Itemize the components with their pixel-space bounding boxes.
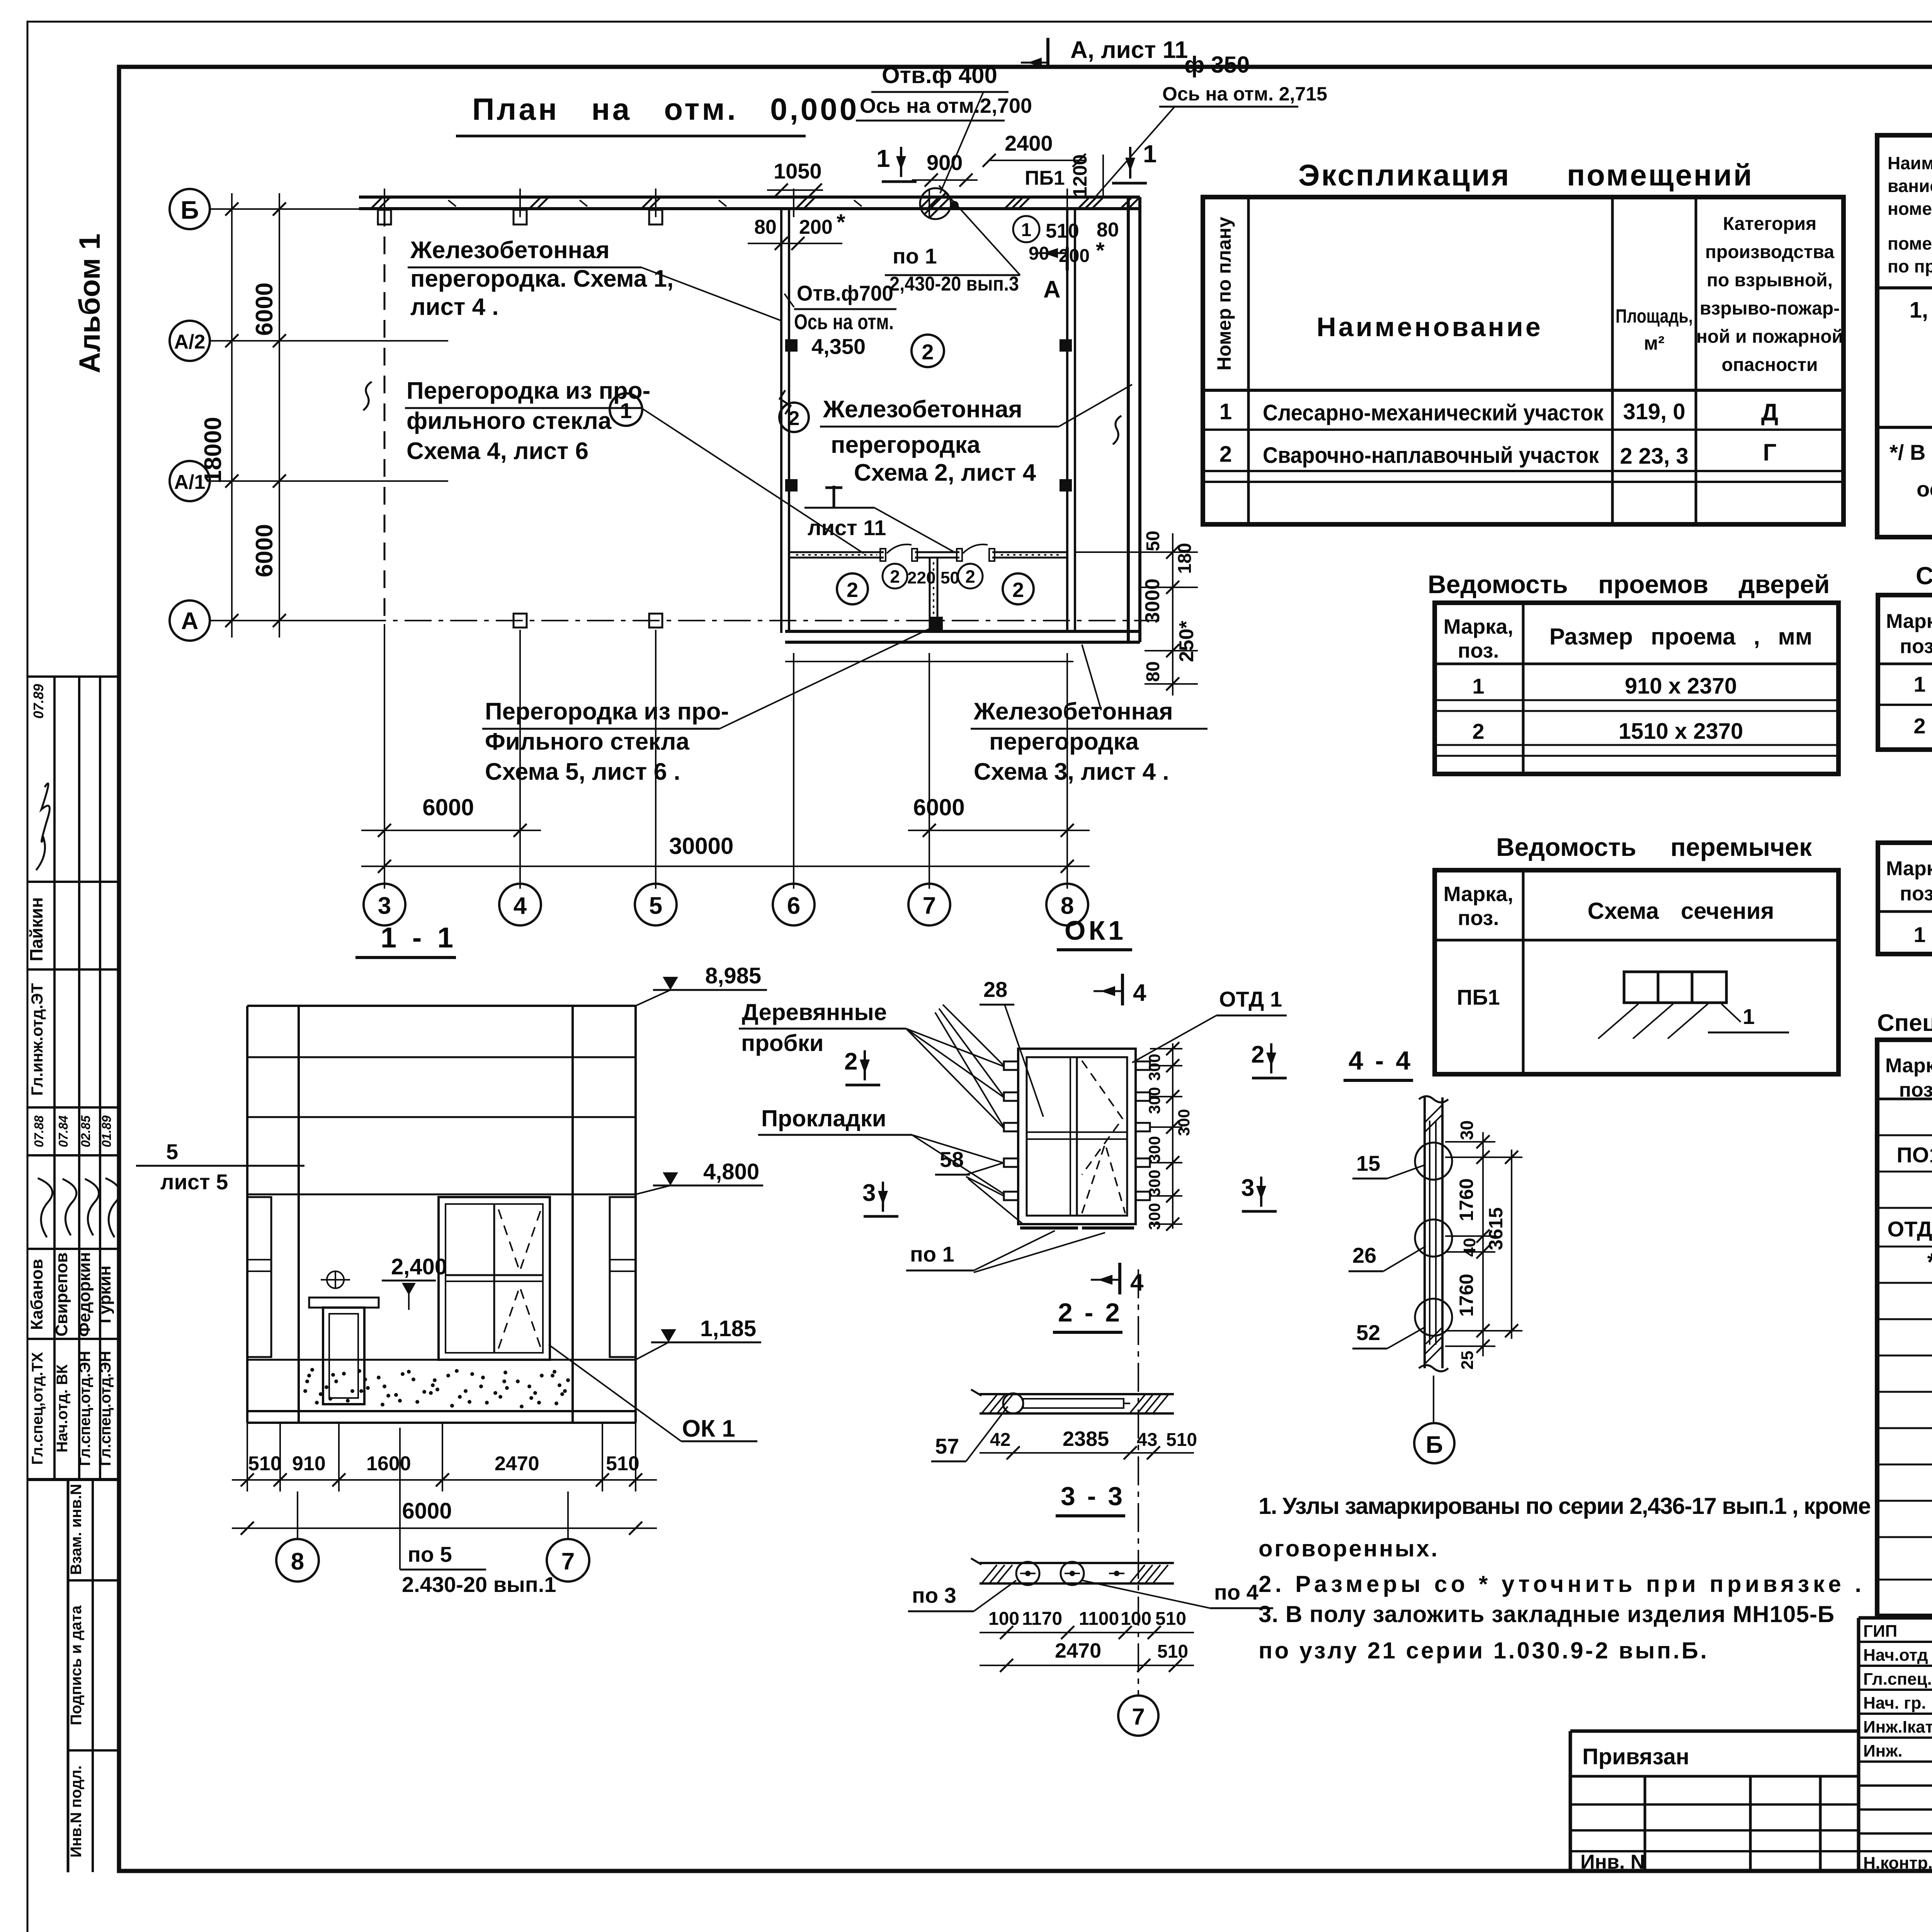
- svg-text:Пайкин: Пайкин: [26, 897, 46, 961]
- svg-text:Н.контр.: Н.контр.: [1863, 1854, 1932, 1872]
- svg-text:510: 510: [1046, 220, 1079, 242]
- svg-text:лист 11: лист 11: [808, 515, 886, 540]
- svg-text:лист 5: лист 5: [160, 1170, 228, 1194]
- svg-text:Спецификация элементов заполне: Спецификация элементов заполнения проемо…: [1916, 562, 1932, 590]
- svg-text:07.89: 07.89: [31, 684, 46, 719]
- svg-text:Фильного стекла: Фильного стекла: [485, 728, 689, 755]
- svg-text:по 3: по 3: [912, 1583, 956, 1607]
- svg-text:100: 100: [1121, 1609, 1151, 1629]
- svg-text:оговоренных.: оговоренных.: [1259, 1536, 1437, 1561]
- svg-text:поз.: поз.: [1458, 639, 1499, 662]
- axis B circle below 4-4: [1433, 1376, 1434, 1422]
- svg-text:4: 4: [1133, 980, 1146, 1006]
- svg-text:ной и пожарной: ной и пожарной: [1696, 327, 1843, 347]
- svg-text:180: 180: [1175, 543, 1195, 574]
- svg-text:1 - 1: 1 - 1: [381, 922, 457, 954]
- svg-text:Ось на отм. 2,715: Ось на отм. 2,715: [1162, 83, 1327, 105]
- section mark 4 bottom: [1118, 1263, 1121, 1294]
- svg-text:по 1: по 1: [910, 1242, 954, 1266]
- svg-text:ОТД 1: ОТД 1: [1888, 1217, 1932, 1241]
- svg-text:пробки: пробки: [741, 1030, 824, 1056]
- svg-text:*: *: [837, 210, 845, 235]
- svg-text:ОК 1: ОК 1: [682, 1415, 735, 1442]
- partition break mark: [780, 390, 791, 414]
- svg-text:А: А: [181, 608, 199, 634]
- table vedomost peremychek: [1435, 870, 1838, 1074]
- svg-text:57: 57: [935, 1434, 959, 1458]
- svg-text:Отв.ф 400: Отв.ф 400: [882, 62, 997, 88]
- svg-text:7: 7: [561, 1548, 575, 1575]
- svg-text:Марка,: Марка,: [1444, 615, 1514, 638]
- level circle symbol: [327, 1271, 344, 1288]
- section mark 4 top: [1121, 974, 1124, 1005]
- svg-text:3615: 3615: [1485, 1207, 1507, 1250]
- margin stamp table grid: [29, 675, 119, 678]
- svg-text:2: 2: [1913, 714, 1925, 738]
- T partition vertical: [929, 558, 931, 631]
- svg-text:43: 43: [1137, 1430, 1157, 1450]
- svg-text:1100: 1100: [1079, 1609, 1119, 1629]
- svg-text:50: 50: [940, 568, 959, 587]
- hatched wall ends 2-2: [982, 1395, 1168, 1413]
- bottom axis A dash-dot line: [359, 620, 1159, 621]
- svg-text:1,185: 1,185: [700, 1316, 756, 1341]
- svg-text:Железобетонная: Железобетонная: [410, 237, 610, 264]
- svg-text:510: 510: [248, 1452, 282, 1475]
- right side dims of plan: [1075, 551, 1198, 553]
- wooden plug hooks left: [1004, 1061, 1150, 1200]
- column stubs below top wall: [378, 210, 391, 224]
- svg-text:510: 510: [1157, 1641, 1188, 1662]
- svg-text:2: 2: [1012, 578, 1024, 602]
- wavy break mark on left: [363, 382, 372, 410]
- svg-text:8: 8: [291, 1548, 304, 1575]
- svg-text:6000: 6000: [913, 794, 964, 820]
- svg-text:Инв.N подл.: Инв.N подл.: [68, 1765, 85, 1858]
- svg-text:Схема 2, лист 4: Схема 2, лист 4: [854, 459, 1036, 486]
- svg-text:остальное — по указанному: остальное — по указанному узлу пола: [1917, 477, 1932, 501]
- svg-text:Ведомость проемов дверей: Ведомость проемов дверей: [1428, 570, 1830, 599]
- svg-text:Альбом 1: Альбом 1: [73, 233, 106, 373]
- svg-text:6000: 6000: [402, 1498, 452, 1524]
- svg-text:2. Размеры со * уточнить: 2. Размеры со * уточнить при привязке .: [1259, 1571, 1861, 1597]
- svg-text:6000: 6000: [422, 794, 474, 820]
- svg-text:1, 2: 1, 2: [1910, 298, 1932, 323]
- svg-text:по узлу 21 серии 1.030.9-2: по узлу 21 серии 1.030.9-2 вып.Б.: [1259, 1638, 1707, 1663]
- svg-text:Слесарно-механический участок: Слесарно-механический участок: [1263, 400, 1604, 425]
- svg-text:2: 2: [1472, 719, 1484, 743]
- svg-text:300: 300: [1145, 1087, 1163, 1114]
- svg-text:*/ В графе указаны покрытие: */ В графе указаны покрытие пола и недос…: [1889, 440, 1932, 464]
- 3-3 center dash line: [1138, 1269, 1139, 1694]
- svg-text:15: 15: [1356, 1151, 1380, 1175]
- 2-2 dims: [980, 1452, 1194, 1454]
- svg-text:Инв. N: Инв. N: [1580, 1851, 1645, 1873]
- svg-text:8,985: 8,985: [705, 963, 761, 988]
- svg-text:по 4: по 4: [1214, 1580, 1259, 1604]
- svg-text:5: 5: [166, 1139, 178, 1164]
- svg-text:1: 1: [1219, 399, 1232, 424]
- svg-text:помещения: помещения: [1888, 233, 1932, 253]
- svg-text:План на отм. 0,000: План на отм. 0,000: [472, 92, 859, 126]
- table spec peremychek: [1878, 843, 1932, 954]
- svg-text:300: 300: [1145, 1054, 1163, 1081]
- door swing arcs: [887, 544, 912, 553]
- svg-text:52: 52: [1356, 1320, 1380, 1345]
- svg-text:по проекту: по проекту: [1888, 256, 1932, 276]
- svg-text:2: 2: [965, 566, 975, 587]
- svg-text:опасности: опасности: [1721, 355, 1818, 375]
- svg-text:1: 1: [1913, 672, 1925, 696]
- svg-text:Деревянные: Деревянные: [742, 999, 887, 1025]
- svg-text:26: 26: [1352, 1243, 1376, 1267]
- room circle 2 main: [912, 335, 944, 367]
- svg-text:3: 3: [1241, 1175, 1254, 1201]
- bottom sill lines: [1020, 1226, 1078, 1230]
- hatch patch on wall near PB1: [529, 198, 1103, 209]
- svg-text:2470: 2470: [495, 1452, 539, 1475]
- svg-text:50: 50: [1143, 531, 1163, 551]
- pier table pedestal: [309, 1298, 379, 1308]
- svg-text:1050: 1050: [774, 159, 822, 183]
- svg-text:Гл.спец.: Гл.спец.: [1863, 1670, 1932, 1689]
- svg-text:2: 2: [1251, 1041, 1264, 1068]
- svg-text:100: 100: [988, 1609, 1019, 1629]
- svg-text:2: 2: [922, 340, 934, 364]
- table spec dverey: [1878, 595, 1932, 750]
- svg-text:1760: 1760: [1456, 1178, 1477, 1221]
- svg-text:80: 80: [1143, 661, 1163, 682]
- table vedomost proemov: [1435, 603, 1838, 774]
- 3-3 dims row2: [980, 1665, 1194, 1666]
- small axis stubs on bottom line: [514, 614, 527, 628]
- svg-text:Ось на отм.: Ось на отм.: [794, 310, 894, 334]
- svg-text:Б: Б: [1426, 1432, 1443, 1458]
- svg-text:поз.: поз.: [1458, 906, 1499, 930]
- svg-text:250*: 250*: [1175, 621, 1198, 662]
- hatched hole circle in wall: [920, 188, 951, 219]
- svg-text:1760: 1760: [1456, 1274, 1477, 1316]
- svg-text:40: 40: [1460, 1238, 1479, 1257]
- svg-text:Экспликация помещений: Экспликация помещений: [1298, 158, 1753, 192]
- svg-text:лист 4 .: лист 4 .: [410, 294, 499, 320]
- right outer wall: [1127, 197, 1130, 642]
- opening dashes: [498, 1287, 541, 1349]
- privyazan grid: [1644, 1776, 1646, 1871]
- list 11 flag: [804, 507, 874, 509]
- svg-text:3: 3: [862, 1180, 876, 1206]
- svg-text:перегородка: перегородка: [831, 432, 980, 458]
- hatch at bottom: [1425, 1105, 1442, 1364]
- right dimension lines 4-4: [1445, 1142, 1522, 1346]
- svg-text:Спецификация к схеме заполнени: Спецификация к схеме заполнения оконного…: [1877, 1010, 1932, 1036]
- svg-text:Д: Д: [1761, 399, 1778, 426]
- svg-text:перегородка. Схема 1,: перегородка. Схема 1,: [410, 265, 673, 292]
- svg-text:1200: 1200: [1069, 154, 1091, 197]
- signature table: [1857, 1618, 1861, 1871]
- svg-text:2,430-20 вып.3: 2,430-20 вып.3: [889, 273, 1019, 295]
- svg-text:производства: производства: [1705, 242, 1834, 262]
- svg-text:Площадь,: Площадь,: [1616, 305, 1693, 327]
- svg-text:2470: 2470: [1055, 1639, 1101, 1662]
- svg-text:Размер проема , мм: Размер проема , мм: [1549, 624, 1813, 650]
- svg-text:1170: 1170: [1022, 1609, 1062, 1629]
- svg-text:Гл.спец.отд.ЭН: Гл.спец.отд.ЭН: [77, 1351, 94, 1466]
- svg-text:по 5: по 5: [408, 1542, 452, 1566]
- privyazan box: [1569, 1731, 1572, 1871]
- svg-text:30000: 30000: [669, 833, 734, 859]
- svg-text:м²: м²: [1644, 332, 1665, 354]
- svg-text:319, 0: 319, 0: [1623, 399, 1685, 424]
- svg-text:по 1: по 1: [893, 244, 937, 268]
- margin lower boxes: [67, 1480, 70, 1871]
- black column squares on partitions: [785, 339, 798, 352]
- svg-text:1: 1: [1913, 922, 1925, 947]
- lower room circles: [837, 573, 868, 604]
- svg-text:2 - 2: 2 - 2: [1058, 1298, 1122, 1327]
- svg-text:перегородка: перегородка: [989, 728, 1139, 755]
- svg-text:220: 220: [907, 568, 935, 587]
- svg-text:2385: 2385: [1063, 1427, 1109, 1451]
- svg-text:Наимено-: Наимено-: [1888, 153, 1932, 173]
- svg-text:510: 510: [606, 1452, 639, 1475]
- svg-text:2400: 2400: [1005, 131, 1053, 155]
- vertical dimension lines left: [231, 193, 233, 638]
- center window OK1: [439, 1197, 550, 1360]
- svg-text:Взам. инв.N: Взам. инв.N: [68, 1484, 85, 1575]
- left partial window: [247, 1197, 271, 1357]
- svg-text:01.89: 01.89: [99, 1115, 114, 1147]
- svg-text:Гуркин: Гуркин: [95, 1265, 114, 1323]
- svg-text:1. Узлы замаркированы по сер: 1. Узлы замаркированы по серии 2,436-17 …: [1259, 1493, 1871, 1519]
- svg-text:ПО1: ПО1: [1897, 1143, 1932, 1167]
- svg-text:Ведомость перемычек: Ведомость перемычек: [1496, 833, 1812, 861]
- svg-text:Марка,: Марка,: [1885, 1054, 1932, 1077]
- svg-text:Гл.инж.отд.ЭТ: Гл.инж.отд.ЭТ: [28, 983, 46, 1096]
- svg-text:2: 2: [789, 407, 800, 430]
- door posts: [880, 549, 886, 561]
- svg-text:2: 2: [844, 1048, 857, 1075]
- svg-text:Федоркин: Федоркин: [75, 1252, 94, 1337]
- svg-text:А: А: [1043, 276, 1061, 303]
- svg-text:А/2: А/2: [174, 331, 206, 353]
- svg-text:ОТД 1: ОТД 1: [1219, 987, 1282, 1011]
- wall axis ticks on top wall: [384, 189, 1067, 217]
- 2-2 bar: [980, 1393, 1174, 1395]
- svg-text:Железобетонная: Железобетонная: [823, 396, 1022, 423]
- svg-text:Марка,: Марка,: [1886, 610, 1932, 633]
- svg-text:510: 510: [1155, 1609, 1186, 1629]
- svg-text:*: *: [1927, 1248, 1932, 1276]
- svg-text:Наименование: Наименование: [1316, 312, 1543, 342]
- svg-text:300: 300: [1145, 1136, 1163, 1163]
- svg-text:200: 200: [799, 216, 833, 238]
- axis circle 7 below 3-3: [1118, 1696, 1158, 1736]
- dim line 6000 right bottom: [908, 830, 1090, 831]
- svg-text:510: 510: [1166, 1430, 1197, 1450]
- svg-text:3. В полу заложить закладные: 3. В полу заложить закладные изделия МН1…: [1259, 1601, 1834, 1627]
- svg-text:поз.: поз.: [1900, 883, 1932, 905]
- svg-text:5: 5: [649, 893, 662, 919]
- circle 2 at partition break: [779, 403, 809, 432]
- dashed opening symbols: [1082, 1061, 1122, 1175]
- svg-text:1600: 1600: [366, 1452, 411, 1475]
- svg-text:2: 2: [890, 566, 900, 587]
- svg-text:6000: 6000: [251, 524, 278, 577]
- svg-text:910 х 2370: 910 х 2370: [1625, 673, 1737, 699]
- svg-text:Перегородка из про-: Перегородка из про-: [406, 378, 650, 404]
- left dashed wall line: [384, 209, 386, 621]
- svg-text:4: 4: [514, 893, 527, 919]
- svg-text:Прокладки: Прокладки: [761, 1105, 886, 1131]
- svg-text:поз.: поз.: [1899, 1079, 1932, 1101]
- 3-3 dims row1: [980, 1632, 1194, 1633]
- svg-text:1: 1: [1143, 140, 1157, 168]
- svg-text:Гл.спец.отд.ЭН: Гл.спец.отд.ЭН: [97, 1351, 114, 1466]
- svg-text:80: 80: [754, 216, 777, 238]
- axis circle A/2: [170, 321, 210, 361]
- horizontal joints: [247, 1056, 636, 1058]
- svg-text:Схема 3, лист 4 .: Схема 3, лист 4 .: [974, 759, 1169, 785]
- svg-text:Схема 4, лист 6: Схема 4, лист 6: [406, 438, 588, 464]
- svg-text:Марка,: Марка,: [1886, 857, 1932, 880]
- svg-text:Гл.спец,отд.ТХ: Гл.спец,отд.ТХ: [29, 1352, 46, 1465]
- svg-text:1: 1: [1472, 674, 1484, 698]
- svg-text:ПБ1: ПБ1: [1025, 167, 1065, 189]
- rotated signatures: [39, 1179, 53, 1236]
- elevation bottom dims: [247, 1423, 248, 1492]
- table ekspl polov: [1877, 135, 1932, 537]
- svg-text:42: 42: [990, 1430, 1010, 1450]
- window frame outer: [1018, 1049, 1136, 1224]
- svg-text:900: 900: [927, 150, 963, 175]
- dim line 30000: [361, 866, 1090, 867]
- partition wall axis 8: [1066, 209, 1068, 633]
- svg-text:Марка,: Марка,: [1444, 883, 1514, 906]
- 4-4 vertical member: [1423, 1097, 1426, 1368]
- svg-text:Нач.отд. ВК: Нач.отд. ВК: [54, 1364, 71, 1452]
- svg-text:Кабанов: Кабанов: [27, 1259, 46, 1330]
- svg-text:4,350: 4,350: [811, 334, 866, 359]
- svg-text:1: 1: [1021, 220, 1032, 240]
- svg-text:Нач.отд: Нач.отд: [1863, 1646, 1928, 1665]
- svg-text:ПБ1: ПБ1: [1457, 985, 1500, 1009]
- top wall: [359, 196, 1140, 199]
- axis circle A/1: [170, 461, 210, 501]
- dim line 6000 left bottom: [361, 830, 541, 831]
- bottom dimension area: [384, 624, 385, 889]
- svg-text:Перегородка из про-: Перегородка из про-: [485, 698, 729, 725]
- svg-text:Б: Б: [180, 196, 199, 224]
- svg-text:Привязан: Привязан: [1582, 1744, 1689, 1769]
- svg-text:2: 2: [1219, 442, 1232, 467]
- extension lines to right dim: [1150, 1049, 1182, 1224]
- svg-text:1: 1: [876, 145, 890, 172]
- svg-text:2 23, 3: 2 23, 3: [1620, 444, 1688, 469]
- axis circles 8 and 7: [297, 1492, 298, 1540]
- svg-text:30: 30: [1457, 1120, 1477, 1140]
- svg-text:Сварочно-наплавочный участок: Сварочно-наплавочный участок: [1263, 443, 1599, 468]
- lintel section schema: [1624, 972, 1658, 1003]
- svg-text:3: 3: [378, 893, 391, 919]
- table ekspl pomeshcheniy: [1203, 197, 1844, 524]
- svg-text:ОК1: ОК1: [1065, 915, 1126, 946]
- svg-text:02.85: 02.85: [78, 1115, 93, 1147]
- svg-text:3000: 3000: [1141, 578, 1164, 623]
- svg-text:Свирепов: Свирепов: [52, 1252, 71, 1337]
- 3-3 bar: [980, 1562, 1174, 1564]
- wall panel joint marks: [448, 200, 862, 206]
- bottom wall of rooms: [785, 630, 1140, 633]
- svg-text:А, лист 11: А, лист 11: [1070, 37, 1188, 63]
- svg-text:ф 350: ф 350: [1184, 52, 1250, 78]
- svg-text:Категория: Категория: [1723, 214, 1816, 234]
- svg-text:Нач. гр.: Нач. гр.: [1863, 1694, 1926, 1713]
- svg-text:910: 910: [292, 1452, 326, 1475]
- svg-text:взрыво-пожар-: взрыво-пожар-: [1700, 298, 1840, 319]
- svg-text:Отв.ф700: Отв.ф700: [797, 281, 893, 305]
- svg-text:25: 25: [1458, 1351, 1477, 1370]
- svg-text:номер: номер: [1888, 199, 1932, 219]
- svg-text:07.84: 07.84: [56, 1116, 70, 1148]
- svg-text:300: 300: [1145, 1170, 1163, 1197]
- svg-text:4,800: 4,800: [703, 1159, 759, 1184]
- svg-text:2.430-20 вып.1: 2.430-20 вып.1: [402, 1572, 556, 1597]
- glass partition horizontal: [789, 551, 884, 553]
- bottom axis circles: [364, 884, 405, 925]
- svg-text:4: 4: [1130, 1269, 1144, 1296]
- detail circles: [1415, 1143, 1452, 1180]
- svg-text:*: *: [1096, 238, 1105, 263]
- fan of leaders from top left to plugs: [935, 1005, 1004, 1127]
- svg-text:Железобетонная: Железобетонная: [973, 698, 1173, 725]
- svg-text:Ось на отм.2,700: Ось на отм.2,700: [860, 94, 1032, 117]
- table spec window: [1877, 1040, 1932, 1616]
- svg-text:28: 28: [983, 977, 1007, 1002]
- svg-text:07.88: 07.88: [32, 1115, 46, 1147]
- svg-text:Инж.: Инж.: [1863, 1742, 1903, 1760]
- right partial window: [610, 1197, 636, 1357]
- svg-text:Подпись и дата: Подпись и дата: [68, 1605, 85, 1725]
- svg-text:вание или: вание или: [1888, 176, 1932, 196]
- svg-text:200: 200: [1059, 246, 1090, 266]
- dim 6000: [232, 1527, 657, 1529]
- bolts in 3-3: [1016, 1562, 1039, 1585]
- svg-text:18000: 18000: [200, 417, 226, 483]
- svg-text:Номер по плану: Номер по плану: [1213, 217, 1235, 371]
- svg-text:фильного стекла: фильного стекла: [406, 408, 612, 434]
- svg-text:ГИП: ГИП: [1863, 1622, 1897, 1641]
- svg-text:по взрывной,: по взрывной,: [1707, 270, 1833, 291]
- svg-text:300: 300: [1145, 1203, 1163, 1230]
- svg-text:2: 2: [847, 578, 858, 602]
- svg-text:7: 7: [923, 893, 936, 919]
- svg-text:1510 х 2370: 1510 х 2370: [1619, 719, 1743, 744]
- svg-text:4 - 4: 4 - 4: [1349, 1046, 1413, 1075]
- axis lines left: [210, 208, 386, 210]
- svg-text:поз.: поз.: [1900, 635, 1932, 658]
- mullion and transom: [1076, 1057, 1078, 1216]
- room circle 1: [610, 393, 642, 426]
- axis circle B: [170, 189, 210, 229]
- svg-text:7: 7: [1132, 1704, 1145, 1730]
- stipple floor band: [303, 1368, 570, 1408]
- svg-text:6: 6: [787, 893, 800, 919]
- partition wall scheme 1: [780, 209, 782, 633]
- svg-text:6000: 6000: [251, 282, 278, 336]
- svg-text:3 - 3: 3 - 3: [1061, 1481, 1125, 1511]
- svg-text:1: 1: [1743, 1004, 1755, 1029]
